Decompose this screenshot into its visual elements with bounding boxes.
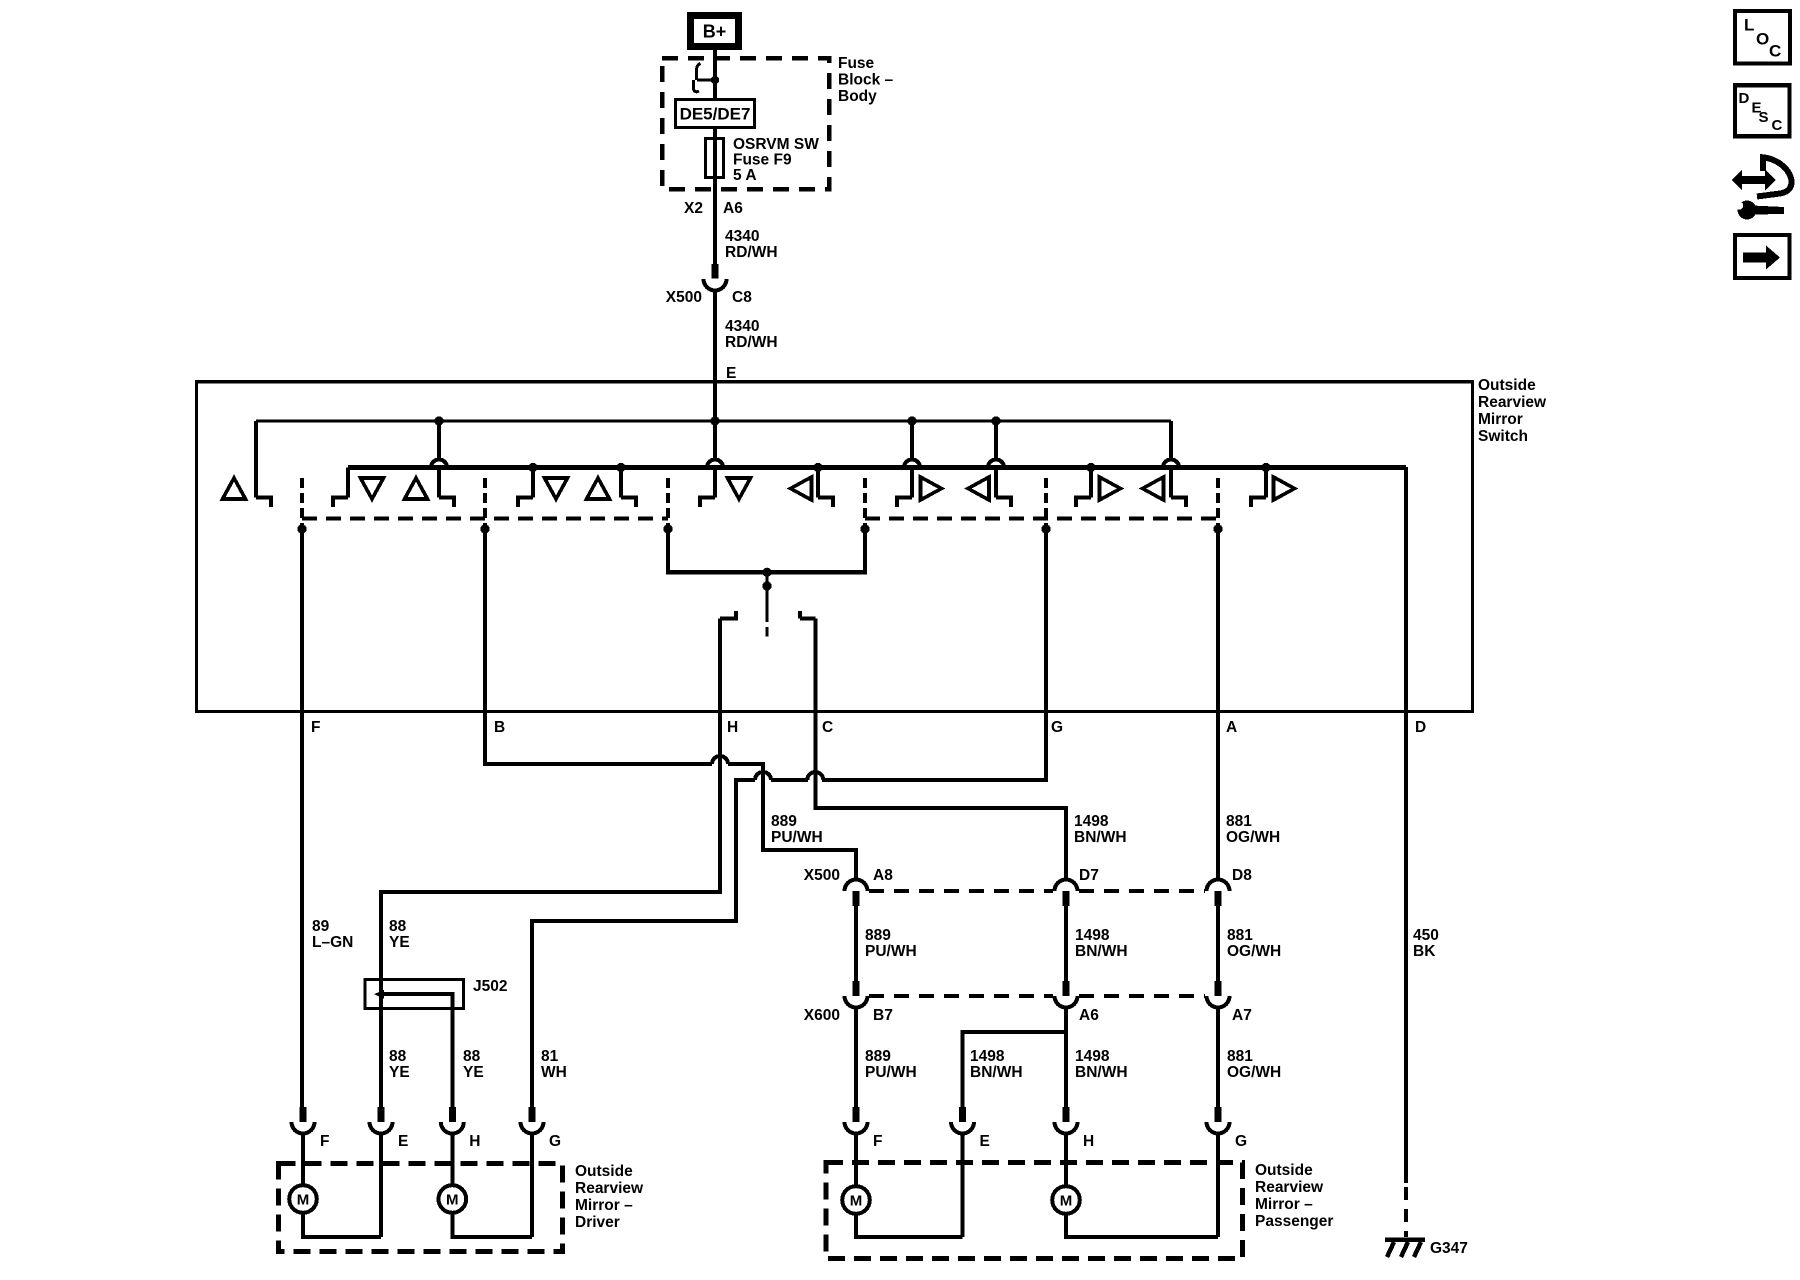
- wire C pin to D7: [815, 711, 1066, 880]
- svg-text:Mirror: Mirror: [1478, 411, 1523, 428]
- bus wire lower thick: [348, 465, 1406, 470]
- junction on lower bus x1091: [1086, 463, 1095, 472]
- icon connector view arrows: [1732, 170, 1776, 191]
- selector pivot junctions: [762, 568, 771, 577]
- svg-text:889: 889: [771, 813, 797, 830]
- svg-text:Rearview: Rearview: [1478, 394, 1547, 411]
- svg-text:881: 881: [1227, 1048, 1253, 1065]
- svg-text:A: A: [1226, 719, 1237, 736]
- switch contact from upper bus at 1171: [1169, 421, 1173, 460]
- svg-text:Body: Body: [838, 88, 877, 105]
- svg-text:Rearview: Rearview: [1255, 1179, 1324, 1196]
- svg-text:Fuse: Fuse: [838, 55, 875, 72]
- svg-text:OG/WH: OG/WH: [1226, 829, 1280, 846]
- wire G to driver mirror G: [532, 780, 755, 1107]
- svg-text:1498: 1498: [1074, 813, 1109, 830]
- svg-text:OG/WH: OG/WH: [1227, 943, 1281, 960]
- driver mirror connector E: [378, 1107, 385, 1122]
- fuse F9 symbol: [706, 139, 724, 178]
- svg-text:B: B: [494, 719, 505, 736]
- junction on lower bus x533: [528, 463, 537, 472]
- svg-text:Fuse F9: Fuse F9: [733, 152, 792, 169]
- ground G347 symbol: [1385, 1237, 1425, 1242]
- driver motor 2 wires: [450, 1134, 454, 1186]
- icon wrench: [1738, 201, 1757, 220]
- svg-text:BN/WH: BN/WH: [1075, 943, 1128, 960]
- svg-text:X500: X500: [804, 867, 840, 884]
- selector contact right C: [800, 611, 815, 619]
- selector common bar: [668, 529, 865, 572]
- switch contact from lower bus at 1266: [1264, 468, 1268, 498]
- svg-text:1498: 1498: [1075, 1048, 1110, 1065]
- svg-text:Driver: Driver: [575, 1214, 620, 1231]
- switch arrow triangle left at 1153: [1143, 477, 1164, 500]
- passenger motor 2 wires: [1064, 1134, 1068, 1187]
- svg-text:89: 89: [312, 918, 330, 935]
- svg-text:Outside: Outside: [1255, 1162, 1313, 1179]
- svg-text:L: L: [1744, 16, 1754, 35]
- svg-text:OSRVM SW: OSRVM SW: [733, 136, 819, 153]
- junction on lower bus x1266: [1261, 463, 1270, 472]
- driver motor M1: [289, 1185, 317, 1213]
- svg-text:YE: YE: [463, 1064, 484, 1081]
- switch contact from lower bus at 533: [531, 468, 535, 498]
- svg-text:G347: G347: [1430, 1240, 1468, 1257]
- svg-text:DE5/DE7: DE5/DE7: [680, 105, 751, 124]
- svg-text:Outside: Outside: [575, 1163, 633, 1180]
- svg-text:Passenger: Passenger: [1255, 1213, 1333, 1230]
- selector mechanical dashed link: [765, 590, 768, 622]
- switch arrow triangle down at 372: [361, 478, 384, 499]
- passenger mirror connector F: [853, 1107, 860, 1122]
- mechanical link vertical at 865: [863, 478, 867, 526]
- svg-text:O: O: [1756, 29, 1769, 48]
- switch arrow triangle right at 1284: [1274, 477, 1295, 500]
- mechanical link vertical at 668: [666, 478, 670, 526]
- switch contact from upper bus at 996: [994, 421, 998, 460]
- splice J502 box: [365, 980, 464, 1009]
- svg-text:C8: C8: [732, 289, 752, 306]
- splice J502 junction: [374, 990, 384, 999]
- icon LOC box: [1735, 11, 1790, 64]
- svg-text:Mirror –: Mirror –: [1255, 1196, 1313, 1213]
- passenger motor M1: [842, 1186, 870, 1214]
- svg-text:881: 881: [1227, 927, 1253, 944]
- svg-text:881: 881: [1226, 813, 1252, 830]
- switch contact from lower bus at 621: [619, 468, 623, 498]
- driver mirror connector G: [529, 1107, 536, 1122]
- switch arrow triangle right at 931: [921, 477, 942, 500]
- svg-text:F: F: [320, 1133, 329, 1150]
- svg-text:BN/WH: BN/WH: [970, 1064, 1023, 1081]
- icon next arrow box: [1735, 235, 1790, 278]
- svg-text:YE: YE: [389, 1064, 410, 1081]
- splice J502 wires: [381, 994, 452, 1107]
- icon DESC box: [1735, 85, 1790, 136]
- svg-text:88: 88: [389, 918, 407, 935]
- wire E into switch: [713, 380, 717, 421]
- switch arrow triangle left at 978.5: [968, 477, 989, 500]
- switch contact from lower bus at 1091: [1089, 468, 1093, 498]
- svg-text:M: M: [446, 1192, 459, 1209]
- hop G wire over C wire: [807, 772, 823, 780]
- svg-text:X500: X500: [666, 289, 702, 306]
- svg-text:A6: A6: [1079, 1007, 1099, 1024]
- svg-text:D8: D8: [1232, 867, 1252, 884]
- wire D pin to ground solid: [1404, 467, 1408, 1183]
- driver motor 1 wires: [301, 1134, 305, 1186]
- svg-text:BN/WH: BN/WH: [1075, 1064, 1128, 1081]
- junction on upper bus x439: [434, 416, 443, 425]
- switch arrow triangle right at 1110: [1100, 477, 1121, 500]
- svg-text:G: G: [1051, 719, 1063, 736]
- svg-text:4340: 4340: [725, 318, 759, 335]
- switch contact from upper bus at 912: [910, 421, 914, 460]
- svg-text:BK: BK: [1413, 943, 1436, 960]
- svg-text:D7: D7: [1079, 867, 1099, 884]
- wire B pin down: [485, 529, 712, 764]
- switch arrow triangle left at 801: [791, 477, 812, 500]
- svg-text:A7: A7: [1232, 1007, 1252, 1024]
- svg-text:S: S: [1759, 109, 1769, 126]
- svg-text:G: G: [549, 1133, 561, 1150]
- svg-text:L–GN: L–GN: [312, 934, 353, 951]
- switch arrow triangle up at 598: [587, 478, 610, 499]
- svg-text:Switch: Switch: [1478, 428, 1528, 445]
- svg-text:889: 889: [865, 927, 891, 944]
- svg-text:889: 889: [865, 1048, 891, 1065]
- wire G mid: [771, 778, 808, 782]
- junction on upper bus x912: [907, 416, 916, 425]
- selector contact left H: [720, 611, 738, 619]
- svg-text:G: G: [1235, 1133, 1247, 1150]
- mechanical link vertical at 302: [300, 478, 304, 526]
- svg-text:F: F: [311, 719, 320, 736]
- svg-text:C: C: [1772, 117, 1783, 134]
- hop G wire over B wire: [755, 772, 771, 780]
- connector DE5/DE7 box: [676, 100, 755, 128]
- connector X500 D8: [1207, 880, 1230, 891]
- svg-text:X600: X600: [804, 1007, 840, 1024]
- svg-text:B7: B7: [873, 1007, 893, 1024]
- connector X500 D7: [1055, 880, 1078, 891]
- switch contact from lower bus at 348: [346, 468, 350, 498]
- wire H pin to J502: [381, 711, 720, 994]
- driver mirror dashed box: [279, 1164, 563, 1252]
- wire D dashed section: [1404, 1187, 1408, 1237]
- svg-text:5 A: 5 A: [733, 167, 757, 184]
- svg-text:PU/WH: PU/WH: [865, 1064, 917, 1081]
- svg-text:Rearview: Rearview: [575, 1180, 644, 1197]
- svg-text:88: 88: [389, 1048, 407, 1065]
- switch contact from lower bus at 818: [816, 468, 820, 498]
- passenger mirror connector E: [959, 1107, 966, 1122]
- switch arrow triangle up at 234: [223, 478, 246, 499]
- connector X600 A6: [1063, 981, 1070, 996]
- mechanical link dashed bar right: [865, 516, 1218, 520]
- mechanical link vertical at 1046: [1044, 478, 1048, 526]
- connector X600 A7: [1215, 981, 1222, 996]
- hop B wire over H wire: [712, 756, 728, 764]
- passenger motor M2: [1052, 1186, 1080, 1214]
- connector X600 B7: [853, 981, 860, 996]
- wire B to X500 A8: [728, 764, 856, 880]
- wire G pin down: [822, 529, 1046, 780]
- svg-text:88: 88: [463, 1048, 481, 1065]
- driver mirror connector F: [300, 1107, 307, 1122]
- svg-text:WH: WH: [541, 1064, 567, 1081]
- switch arrow triangle up at 416: [405, 478, 428, 499]
- passenger motor 1 wires: [854, 1134, 858, 1187]
- mechanical link dashed bar left: [302, 516, 668, 520]
- svg-text:B+: B+: [703, 22, 727, 42]
- svg-text:YE: YE: [389, 934, 410, 951]
- driver mirror connector H: [449, 1107, 456, 1122]
- svg-text:M: M: [850, 1193, 863, 1210]
- switch contact from wire E at 715: [713, 421, 717, 460]
- svg-text:PU/WH: PU/WH: [771, 829, 823, 846]
- wire A pin to D8: [1216, 529, 1220, 880]
- svg-text:C: C: [822, 719, 833, 736]
- fuse block dashed box: [662, 58, 829, 189]
- svg-text:E: E: [726, 365, 736, 382]
- svg-text:OG/WH: OG/WH: [1227, 1064, 1281, 1081]
- svg-text:J502: J502: [473, 978, 507, 995]
- svg-text:D: D: [1739, 90, 1750, 107]
- bus wire upper: [256, 419, 1171, 422]
- svg-text:450: 450: [1413, 927, 1439, 944]
- switch arrow triangle down at 556: [545, 478, 568, 499]
- svg-text:M: M: [1060, 1193, 1073, 1210]
- wire F pin to driver mirror: [300, 529, 304, 1107]
- svg-text:1498: 1498: [1075, 927, 1110, 944]
- junction on upper bus x715: [710, 416, 719, 425]
- svg-text:Outside: Outside: [1478, 377, 1536, 394]
- connector X500 C8 terminal: [712, 264, 719, 279]
- svg-text:PU/WH: PU/WH: [865, 943, 917, 960]
- junction on lower bus x818: [813, 463, 822, 472]
- svg-text:C: C: [1769, 41, 1781, 60]
- svg-text:81: 81: [541, 1048, 559, 1065]
- power feed B+ symbol: [691, 16, 739, 47]
- svg-text:Mirror –: Mirror –: [575, 1197, 633, 1214]
- passenger mirror dashed box: [826, 1163, 1243, 1259]
- wire DE5/DE7 to fuse: [713, 128, 717, 264]
- connector X500 dashed line 1: [869, 889, 1053, 893]
- switch contact from upper bus at 256: [254, 421, 258, 497]
- svg-text:4340: 4340: [725, 228, 759, 245]
- mechanical link vertical at 485: [483, 478, 487, 526]
- svg-text:1498: 1498: [970, 1048, 1005, 1065]
- svg-text:RD/WH: RD/WH: [725, 244, 778, 261]
- svg-text:X2: X2: [684, 200, 703, 217]
- bus bar tap symbol: [697, 79, 715, 82]
- mechanical link vertical at 1218: [1216, 478, 1220, 526]
- connector X500 A8: [845, 880, 868, 891]
- wire branch A6 to passenger E: [963, 1032, 1067, 1107]
- passenger mirror connector H: [1063, 1107, 1070, 1122]
- svg-text:E: E: [398, 1133, 408, 1150]
- svg-text:M: M: [297, 1192, 310, 1209]
- outside rearview mirror switch box: [197, 382, 1473, 712]
- connector X600 dashed line 1: [869, 994, 1053, 998]
- junction on upper bus x996: [991, 416, 1000, 425]
- svg-text:H: H: [727, 719, 738, 736]
- svg-text:H: H: [469, 1133, 480, 1150]
- svg-text:A6: A6: [723, 200, 743, 217]
- switch contact from upper bus at 439: [437, 421, 441, 460]
- wire B+ to fuse block: [713, 50, 717, 98]
- svg-text:E: E: [980, 1133, 990, 1150]
- junction on lower bus x621: [616, 463, 625, 472]
- connector X500 dashed line 2: [1079, 889, 1205, 893]
- switch arrow triangle down at 739: [728, 478, 751, 499]
- connector X600 dashed line 2: [1079, 994, 1205, 998]
- svg-text:F: F: [873, 1133, 882, 1150]
- driver motor M2: [439, 1185, 467, 1213]
- svg-text:D: D: [1415, 719, 1426, 736]
- svg-text:A8: A8: [873, 867, 893, 884]
- svg-text:Block –: Block –: [838, 72, 894, 89]
- svg-text:H: H: [1083, 1133, 1094, 1150]
- svg-text:BN/WH: BN/WH: [1074, 829, 1127, 846]
- passenger mirror connector G: [1215, 1107, 1222, 1122]
- svg-text:RD/WH: RD/WH: [725, 334, 778, 351]
